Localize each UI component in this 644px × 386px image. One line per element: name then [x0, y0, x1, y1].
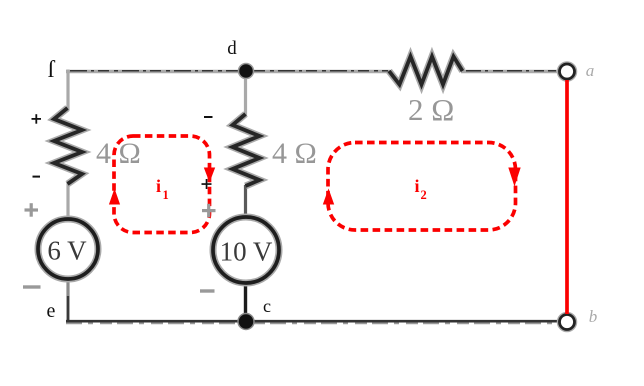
svg-text:6 V: 6 V: [47, 236, 87, 266]
svg-text:2 Ω: 2 Ω: [408, 92, 454, 127]
svg-text:i: i: [415, 176, 420, 196]
svg-text:a: a: [586, 61, 595, 80]
svg-text:10 V: 10 V: [220, 237, 273, 267]
svg-text:i: i: [156, 176, 161, 196]
svg-text:4 Ω: 4 Ω: [96, 137, 141, 170]
svg-text:e: e: [47, 300, 56, 322]
svg-text:d: d: [227, 38, 237, 59]
svg-text:4 Ω: 4 Ω: [272, 137, 317, 170]
svg-text:2: 2: [421, 188, 427, 202]
svg-text:c: c: [263, 296, 271, 316]
svg-text:1: 1: [163, 188, 169, 202]
svg-text:b: b: [589, 307, 598, 326]
